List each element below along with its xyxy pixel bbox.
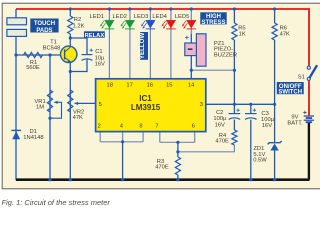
resistor R2 bbox=[68, 16, 73, 34]
svg-text:8: 8 bbox=[139, 123, 142, 129]
wire: C3 column bbox=[250, 104, 252, 113]
junction at 70.3,71.5 bbox=[69, 70, 72, 73]
wire: LED1 anode/cathode column bbox=[108, 9, 110, 79]
potentiometer VR2 bbox=[68, 90, 73, 112]
junction at 274.6,104.3 bbox=[273, 103, 276, 106]
wire: LED3 anode/cathode column bbox=[149, 9, 151, 79]
svg-text:1.2K: 1.2K bbox=[73, 23, 85, 29]
svg-text:C1: C1 bbox=[95, 49, 102, 55]
junction at 50,118.2 bbox=[48, 117, 51, 120]
wire: R5 column bbox=[233, 9, 235, 23]
junction at 177.9,179.7 bbox=[176, 178, 179, 181]
wire: left rail down through D1 to ground bbox=[15, 55, 17, 180]
wire: touch pad to R1 node bbox=[15, 36, 17, 55]
switch S1 bbox=[307, 66, 310, 69]
wire: R6 column bbox=[274, 9, 276, 23]
wire: left rail bus to touch pad bbox=[15, 9, 17, 18]
label RELAX bbox=[84, 31, 105, 37]
svg-text:S1: S1 bbox=[298, 74, 305, 80]
svg-text:IC1: IC1 bbox=[139, 94, 152, 103]
svg-text:LED1: LED1 bbox=[90, 14, 105, 20]
svg-text:47K: 47K bbox=[280, 31, 290, 37]
wire: IC pin 3 rail bbox=[206, 103, 275, 105]
capacitor C1 bbox=[82, 54, 93, 56]
piezo buzzer PZ1 bbox=[196, 34, 206, 66]
resistor R6 bbox=[272, 23, 277, 40]
junction at 177.9,142.3 bbox=[176, 141, 179, 144]
LED4 bbox=[166, 20, 176, 28]
svg-text:LED3: LED3 bbox=[134, 14, 149, 20]
svg-text:BUZZER: BUZZER bbox=[214, 52, 237, 58]
wire: R3 top bbox=[177, 142, 179, 157]
junction at 50,55 bbox=[48, 53, 51, 56]
zener ZD1 bbox=[268, 141, 282, 144]
touch pad upper bbox=[7, 18, 27, 25]
svg-text:Fig. 1: Circuit of the stress: Fig. 1: Circuit of the stress meter bbox=[2, 198, 111, 207]
junction at 70.3,9 bbox=[69, 7, 72, 10]
resistor R3 bbox=[175, 157, 180, 175]
svg-text:SWITCH: SWITCH bbox=[278, 90, 302, 96]
LED5 bbox=[187, 20, 197, 28]
svg-text:C2: C2 bbox=[216, 110, 223, 116]
svg-text:16: 16 bbox=[147, 83, 153, 89]
LED3 bbox=[146, 20, 156, 28]
svg-text:470E: 470E bbox=[155, 165, 169, 171]
junction at 274.6,9 bbox=[273, 7, 276, 10]
junction at 109.4,9 bbox=[108, 7, 111, 10]
potentiometer VR1 bbox=[47, 90, 52, 112]
svg-text:15: 15 bbox=[166, 83, 172, 89]
svg-text:D1: D1 bbox=[30, 129, 37, 135]
svg-text:5: 5 bbox=[99, 102, 102, 108]
svg-text:LED4: LED4 bbox=[152, 14, 167, 20]
svg-text:17: 17 bbox=[126, 83, 132, 89]
junction at 234.4,9 bbox=[233, 7, 236, 10]
svg-text:BATT.: BATT. bbox=[287, 121, 303, 127]
svg-text:18: 18 bbox=[106, 83, 112, 89]
junction at 70.3,179.7 bbox=[69, 178, 72, 181]
junction at 191.3,70.2 bbox=[190, 69, 193, 72]
svg-text:LED5: LED5 bbox=[175, 14, 190, 20]
wire: C1 bottom to emitter node bbox=[70, 59, 87, 71]
wire: LED5/buzzer column bbox=[190, 9, 192, 34]
junction at 274.6,179.7 bbox=[273, 178, 276, 181]
junction at 170.9,9 bbox=[169, 7, 172, 10]
label ON/OFF SWITCH bbox=[277, 82, 304, 94]
svg-text:PADS: PADS bbox=[36, 28, 52, 34]
wire: battery negative (black) bbox=[308, 122, 310, 180]
svg-text:16V: 16V bbox=[215, 122, 225, 128]
svg-text:14: 14 bbox=[188, 83, 195, 89]
junction at 50,179.7 bbox=[48, 178, 51, 181]
LED2 bbox=[125, 20, 135, 28]
junction at 122.6,179.7 bbox=[121, 178, 124, 181]
battery BATT.1 9V bbox=[304, 115, 314, 117]
svg-text:LED2: LED2 bbox=[113, 14, 128, 20]
capacitor C3 bbox=[245, 113, 257, 115]
junction at 191.3,9 bbox=[190, 7, 193, 10]
junction at 250.8,179.7 bbox=[249, 178, 252, 181]
wire: battery feed (red, below switch) bbox=[308, 78, 310, 116]
wire: R3 bottom to ground bbox=[177, 175, 179, 180]
svg-text:3: 3 bbox=[200, 102, 203, 108]
wire: R2 top bbox=[69, 9, 71, 16]
wire: pin 4 node to ground bbox=[122, 142, 124, 180]
wire: VR2 wiper to IC pin 5 bbox=[75, 102, 96, 104]
svg-text:YELLOW: YELLOW bbox=[139, 33, 146, 60]
wire: VR1 wiper short bbox=[50, 102, 62, 118]
svg-text:BC548: BC548 bbox=[43, 45, 61, 51]
svg-text:STRESS: STRESS bbox=[201, 20, 225, 26]
label HIGH STRESS bbox=[200, 12, 226, 24]
wire: base wire R1 to T1 bbox=[16, 54, 65, 56]
junction at 122.6,141.8 bbox=[121, 140, 124, 143]
wire: IC pins 2,4,8 bracket bbox=[99, 132, 101, 142]
svg-text:16V: 16V bbox=[262, 123, 272, 129]
svg-text:7: 7 bbox=[155, 123, 158, 129]
transistor T1 bbox=[60, 46, 76, 62]
svg-text:1N4148: 1N4148 bbox=[23, 135, 43, 141]
junction at 250.8,104.3 bbox=[249, 103, 252, 106]
svg-text:LM3915: LM3915 bbox=[131, 103, 161, 112]
wire: C2 bottom to R4 bbox=[233, 120, 235, 130]
wire: VR1 branch bbox=[49, 55, 51, 180]
diode D1 bbox=[11, 129, 21, 131]
svg-text:100µ: 100µ bbox=[213, 116, 227, 122]
svg-text:1K: 1K bbox=[239, 31, 246, 37]
svg-text:R2: R2 bbox=[74, 17, 81, 23]
wire: IC pins 7,6 bracket bbox=[159, 132, 161, 143]
wire: LED2 anode/cathode column bbox=[129, 9, 131, 79]
svg-text:470E: 470E bbox=[215, 139, 229, 145]
wire: R2 bottom to T1 collector bbox=[69, 34, 71, 47]
label YELLOW (vertical) bbox=[140, 32, 148, 60]
svg-text:1M: 1M bbox=[36, 105, 44, 111]
wire: ZD1 anode to ground bbox=[274, 150, 276, 180]
svg-text:2: 2 bbox=[98, 123, 101, 129]
ground bus bbox=[16, 178, 310, 181]
resistor R5 bbox=[232, 23, 237, 40]
label TOUCH PADS bbox=[30, 19, 58, 33]
svg-text:6: 6 bbox=[192, 123, 195, 129]
wire: T1 emitter down through VR2 to ground bbox=[69, 62, 71, 180]
svg-text:47K: 47K bbox=[73, 115, 83, 121]
wire: +V red bus bbox=[16, 9, 309, 66]
junction at 150.4,9 bbox=[149, 7, 152, 10]
svg-text:560E: 560E bbox=[26, 65, 40, 71]
IC1 LM3915 bbox=[96, 79, 206, 132]
capacitor C2 bbox=[229, 113, 241, 115]
junction at 129.9,9 bbox=[128, 7, 131, 10]
LED1 bbox=[105, 20, 115, 28]
touch pad lower bbox=[7, 29, 27, 36]
junction at 234.4,70.2 bbox=[233, 69, 236, 72]
junction at 234.4,104.3 bbox=[233, 103, 236, 106]
junction at 16,55 bbox=[14, 53, 17, 56]
wire: buzzer bottom to R5 column bbox=[191, 69, 234, 71]
junction at 177.9,151.8 bbox=[176, 150, 179, 153]
svg-text:0.5W: 0.5W bbox=[253, 158, 267, 164]
svg-text:TOUCH: TOUCH bbox=[34, 21, 55, 27]
resistor R4 bbox=[232, 130, 237, 145]
svg-text:RELAX: RELAX bbox=[85, 33, 105, 39]
svg-text:16V: 16V bbox=[95, 61, 105, 67]
wire: C1 branch from collector node bbox=[70, 38, 87, 54]
resistor R1 bbox=[24, 52, 43, 57]
wire: R4 bottom elbow to R3 node bbox=[178, 145, 235, 152]
wire: LED4 anode/cathode column bbox=[170, 9, 172, 79]
junction at 70.3,38 bbox=[69, 36, 72, 39]
